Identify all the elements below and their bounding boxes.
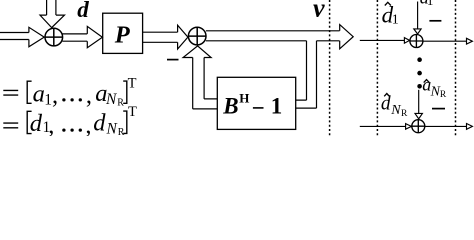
- wire vertical double-line shaft into adder A1 from top: [40, 0, 65, 28]
- wire down from a_NR into adder A4: [418, 90, 420, 114]
- svg-text:d: d: [30, 110, 43, 136]
- arrowhead (open, down) into adder A3: [414, 29, 421, 34]
- equation 2 ellipsis dot: [62, 128, 65, 131]
- svg-text:R: R: [401, 109, 408, 119]
- svg-text:d: d: [93, 109, 106, 136]
- svg-text:1: 1: [271, 94, 283, 119]
- dotted separator line 1: [329, 0, 331, 136]
- left bracket: [27, 111, 31, 133]
- arrowhead (hollow, right) into adder A1: [29, 27, 44, 47]
- equation 2 ellipsis dot: [79, 128, 82, 131]
- wire into adder A3: [360, 39, 405, 41]
- svg-text:d: d: [77, 0, 89, 22]
- adder A2 (circle with plus): [188, 27, 206, 45]
- arrowhead (hollow, up) into adder A2: [183, 46, 211, 58]
- minus in box B: [253, 107, 264, 109]
- svg-text:1: 1: [392, 13, 399, 28]
- equation line 2: = [d1, ..., d_NR]^T: [3, 111, 127, 134]
- vertical ellipsis dot 2: [417, 71, 422, 76]
- svg-text:,: ,: [48, 112, 54, 136]
- equals sign: [3, 90, 18, 95]
- arrowhead (open) into adder A3: [404, 38, 409, 44]
- svg-text:N: N: [105, 91, 118, 108]
- arrowhead (open) at right boundary row 2: [467, 124, 473, 130]
- svg-text:B: B: [222, 94, 238, 119]
- equation line 1: = [a1, ..., a_NR]^T: [3, 81, 127, 103]
- svg-text:R: R: [440, 90, 447, 100]
- wire double-line box P to adder A2: [143, 32, 178, 42]
- hat accent of label d-hat_1: [385, 2, 391, 5]
- svg-text:,: ,: [52, 82, 58, 109]
- minus sign at adder A4: [432, 108, 445, 110]
- hat accent of label a-hat_NR: [424, 80, 430, 83]
- box P: [103, 13, 143, 53]
- right bracket: [123, 111, 127, 133]
- svg-text:T: T: [128, 104, 137, 120]
- svg-text:R: R: [118, 127, 125, 136]
- wire double-line output v (bottom line, with feedback branch gap): [206, 40, 340, 42]
- arrowhead (open) at right boundary row 1: [467, 38, 473, 44]
- box B^H - 1: [217, 77, 295, 129]
- wire double-line output v (top line): [206, 30, 340, 32]
- svg-text:R: R: [117, 98, 124, 109]
- arrowhead (hollow, right) at section boundary: [340, 25, 354, 49]
- arrowhead (hollow, right) into adder A2: [178, 25, 188, 49]
- vertical ellipsis dot 1: [417, 57, 422, 62]
- svg-text:1: 1: [427, 0, 434, 8]
- svg-text:,: ,: [85, 112, 91, 136]
- feedback branch down (double line): [307, 41, 317, 108]
- wire out of adder A4: [425, 125, 467, 127]
- svg-text:a: a: [33, 80, 45, 107]
- dotted separator line 2: [376, 0, 378, 136]
- wire double-line adder A1 to box P: [63, 34, 88, 41]
- adder A1 (circle with plus): [45, 28, 63, 46]
- svg-text:1: 1: [44, 92, 52, 109]
- feedback into box B right side: [296, 100, 317, 108]
- left bracket: [27, 81, 31, 103]
- feedback out of box B left side: [193, 99, 218, 109]
- vertical ellipsis dot 3: [417, 84, 422, 89]
- right bracket: [123, 81, 127, 103]
- wire down from a1 into adder A3: [417, 2, 419, 29]
- equation 1 ellipsis dot: [79, 98, 82, 101]
- svg-text:v: v: [313, 0, 325, 22]
- svg-text:N: N: [106, 121, 119, 136]
- svg-text:N: N: [390, 103, 401, 118]
- arrowhead (open) into adder A4: [406, 124, 412, 130]
- svg-text:,: ,: [86, 82, 92, 109]
- equation 1 ellipsis dot: [70, 98, 73, 101]
- svg-text:P: P: [114, 22, 131, 49]
- svg-text:H: H: [239, 91, 249, 106]
- equals sign: [3, 123, 18, 128]
- adder A3 (circle with plus): [410, 35, 423, 48]
- equation 2 ellipsis dot: [70, 128, 73, 131]
- svg-text:T: T: [128, 75, 137, 91]
- adder A4 (circle with plus): [412, 120, 425, 133]
- wire horizontal double-line input from left: [0, 33, 29, 40]
- svg-text:d: d: [381, 94, 391, 115]
- hat accent of label d-hat_NR: [384, 94, 389, 97]
- equation 1 ellipsis dot: [62, 98, 65, 101]
- minus sign at feedback adder A2: [167, 59, 179, 61]
- minus sign at adder A3: [429, 20, 441, 22]
- arrowhead (hollow, right) into box P: [87, 26, 102, 47]
- feedback vertical double-line up to adder A2: [193, 58, 204, 109]
- arrowhead (hollow, down) into adder A1: [40, 15, 65, 28]
- wire out of adder A3: [423, 40, 467, 42]
- wire into adder A4: [360, 125, 406, 127]
- arrowhead (open, down) into adder A4: [415, 113, 422, 118]
- dotted separator line 3: [455, 0, 457, 136]
